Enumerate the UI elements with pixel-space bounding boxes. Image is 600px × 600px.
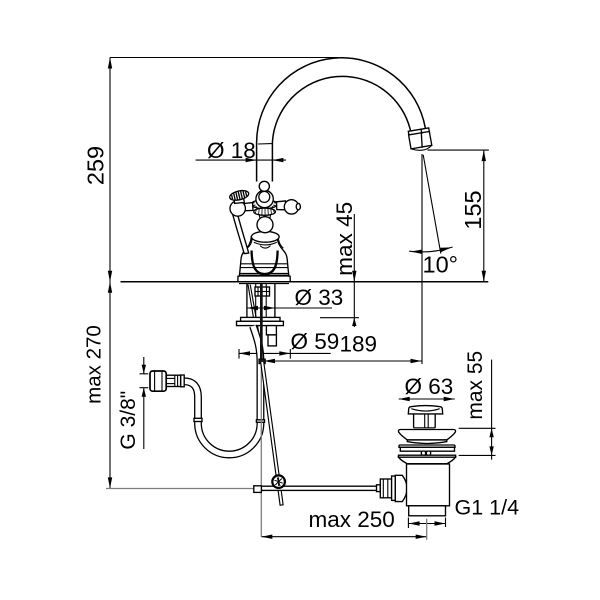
svg-text:max 45: max 45	[332, 202, 357, 276]
svg-text:259: 259	[83, 146, 109, 185]
svg-text:10°: 10°	[423, 252, 459, 278]
svg-text:G 3/8": G 3/8"	[117, 391, 140, 450]
svg-text:Ø 63: Ø 63	[405, 374, 454, 399]
svg-text:189: 189	[340, 332, 378, 357]
svg-text:max 270: max 270	[83, 325, 106, 404]
svg-text:max 250: max 250	[309, 507, 395, 532]
svg-text:Ø 18: Ø 18	[207, 138, 256, 163]
svg-text:Ø 59: Ø 59	[291, 329, 340, 354]
svg-text:G1 1/4: G1 1/4	[455, 496, 520, 520]
svg-text:Ø 33: Ø 33	[295, 285, 344, 310]
svg-text:155: 155	[460, 190, 486, 229]
svg-text:max 55: max 55	[464, 351, 487, 420]
